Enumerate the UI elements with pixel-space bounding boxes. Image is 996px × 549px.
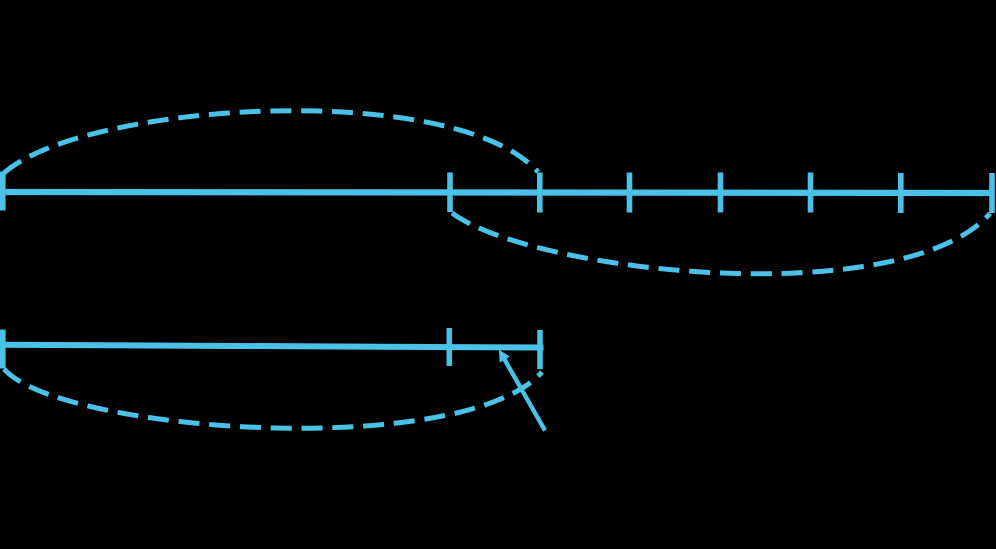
top line tick 4 (718, 173, 724, 213)
dashed arc below top line, spanning tick 1 to tick 7 (452, 213, 990, 274)
dashed arc above top line, spanning tick 0 to tick 2 (4, 111, 538, 173)
bottom line tick 0 (0, 330, 6, 369)
top line tick 7 (right end) (989, 173, 995, 213)
arrow shaft pointing to position near right end of bottom line (504, 359, 545, 431)
top line tick 3 (627, 173, 633, 213)
bottom line tick 1 (446, 328, 452, 366)
top line tick 5 (808, 173, 814, 213)
dashed arc below bottom line, spanning its full width (4, 369, 542, 428)
top line tick 2 (537, 173, 543, 213)
top line tick 6 (898, 173, 904, 213)
bottom number line main axis (0, 345, 544, 348)
top line tick 0 (0, 172, 6, 211)
arrow head (499, 350, 510, 363)
top number line main axis (0, 192, 993, 193)
bottom line tick 2 (right end) (537, 330, 543, 369)
top line tick 1 (447, 173, 453, 213)
